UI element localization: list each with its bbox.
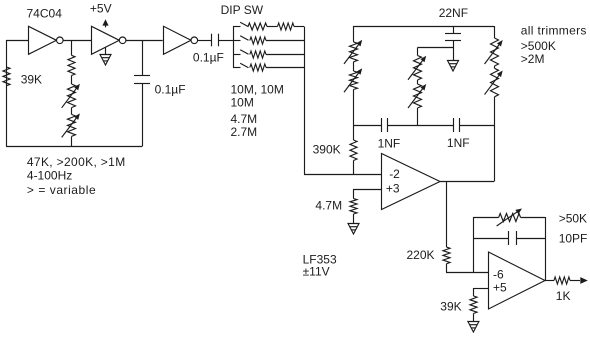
wire [459,125,494,127]
label 10M, 10M [231,83,284,97]
svg-text:10M, 10M: 10M, 10M [231,83,284,97]
resistor R1 39K [3,67,10,86]
wire [266,54,304,56]
wire [71,108,73,115]
wire feedback top left [473,217,498,219]
wire [473,288,475,296]
wire [353,189,355,199]
resistor row4 [250,64,266,71]
resistor timing chain top [68,55,75,75]
wire DIP left bus [233,27,235,68]
wire [353,26,355,42]
wire U2A output [440,181,494,183]
svg-text:all trimmers: all trimmers [521,24,587,38]
wire inverting input [304,174,382,176]
svg-text:0.1µF: 0.1µF [155,83,186,97]
wire U1B output to U1C input [126,40,163,42]
capacitor 1NF left [382,118,388,132]
wire top rail [354,26,495,28]
wire feedback top right [521,217,545,219]
resistor 220K [443,247,450,264]
label 47K, >200K, >1M [27,155,126,169]
svg-text:>50K: >50K [559,212,587,226]
wire noninverting input [354,189,382,191]
wire [388,125,454,127]
svg-text:2.7M: 2.7M [231,125,258,139]
wire [353,214,355,223]
ground under 4.7M [348,224,359,235]
wire [353,62,355,71]
svg-text:4.7M: 4.7M [231,112,258,126]
wire U1C output to C2 [198,40,212,42]
trimmer timing chain 2 [62,113,80,137]
svg-text:+3: +3 [386,182,400,196]
resistor 10M a [248,23,267,30]
svg-text:74C04: 74C04 [27,7,63,21]
label 2.7M [231,125,258,139]
label all trimmers [521,24,587,38]
wire [267,26,278,28]
wire [266,40,304,42]
wire [353,125,355,175]
trimmer middle branch 2 [408,84,426,108]
wire 10PF rail right [516,238,545,240]
wire [353,90,355,126]
inverter U1B 74C04 [92,26,126,54]
ground under U1B [100,47,111,65]
label > = variable [27,183,96,197]
svg-text:1K: 1K [556,289,571,303]
inverter U1C 74C04 [164,26,198,54]
label 39K bias [440,300,461,314]
svg-text:390K: 390K [313,143,341,157]
op-amp U2B LF353 [489,252,546,309]
capacitor C1 0.1uF [134,76,150,84]
label 1NF left [378,137,401,151]
wire [494,26,496,38]
label +5V [90,1,112,15]
trimmer left branch 2 [344,68,362,92]
resistor 39K bias [470,296,477,314]
switch S3 [233,50,249,55]
resistor 10M b [278,23,295,30]
label >2M [521,52,545,66]
trimmer timing chain 1 [62,84,80,108]
capacitor 22NF [445,34,461,41]
wire noninverting input [473,288,488,290]
label 4.7M [231,112,258,126]
wire U1A output to U1B input [63,40,91,42]
ground under 22NF [448,61,459,72]
wire 220K branch [446,182,448,248]
switch S1 [233,22,249,27]
capacitor C2 0.1uF series [212,34,219,47]
wire [570,280,580,282]
output arrow [580,277,588,284]
wire feedback right vertical [545,217,547,281]
wire to inverting input [446,272,489,274]
svg-text:-6: -6 [493,267,504,281]
ground under 39K [468,322,479,333]
svg-text:10PF: 10PF [559,231,588,245]
resistor 4.7M [350,199,357,215]
capacitor 1NF right [454,118,460,132]
label 0.1uF C2 [193,51,224,65]
svg-text:1NF: 1NF [447,136,470,150]
wire [71,136,73,146]
wire [494,97,496,182]
svg-text:>500K: >500K [521,39,556,53]
wire feedback left vertical [473,217,475,272]
wire [417,108,419,125]
wire [71,76,73,85]
wire [294,26,304,28]
trimmer left branch 1 [344,40,362,64]
label 390K [313,143,341,157]
switch S4 [233,63,249,68]
label pin +5 [493,281,507,295]
label >500K [521,39,556,53]
svg-text:47K, >200K, >1M: 47K, >200K, >1M [27,155,126,169]
resistor row2 [250,37,266,44]
resistor 390K [350,140,357,161]
node cap branch [142,40,144,75]
label pin -6 [493,267,504,281]
svg-text:22NF: 22NF [439,6,468,20]
wire 10PF rail left [473,238,508,240]
label 1K [556,289,571,303]
wire [417,48,419,56]
svg-text:39K: 39K [440,300,461,314]
label 74C04 [27,7,63,21]
wire bottom return [6,146,142,148]
label 220K [407,248,435,262]
wire input to inverter U1A [6,40,28,42]
wire [473,314,475,322]
label 1NF right [447,136,470,150]
label >50K [559,212,587,226]
label 10M [231,96,254,110]
wire [453,40,455,61]
wire [417,80,419,84]
label DIP SW [221,3,264,17]
wire [446,264,448,272]
wire DIP right bus [304,27,306,175]
power +5V arrow [102,19,108,27]
inverter U1A 74C04 [29,26,64,54]
wire 1NF rail left [354,125,382,127]
switch S2 [233,36,249,41]
wire tee to middle branch [418,47,454,49]
svg-text:+5V: +5V [90,1,112,15]
label LF353 [303,253,337,267]
svg-text:220K: 220K [407,248,435,262]
svg-text:10M: 10M [231,96,254,110]
wire [142,83,144,147]
svg-text:4-100Hz: 4-100Hz [27,169,72,183]
label pin +3 [386,182,400,196]
trimmer right branch 1 [485,38,503,66]
trimmer right branch 2 [485,68,503,97]
label 39K [21,72,42,86]
resistor row3 [250,51,266,58]
wire [266,67,304,69]
svg-text:>2M: >2M [521,52,545,66]
svg-text:4.7M: 4.7M [315,198,342,212]
label 10PF [559,231,588,245]
svg-text:+5: +5 [493,281,507,295]
svg-text:-2: -2 [389,167,400,181]
wire U2B output [545,280,554,282]
label 22NF [439,6,468,20]
label +-11V [303,265,330,279]
label 4-100Hz [27,169,72,183]
wire left vertical [6,40,8,147]
trimmer middle branch 1 [408,56,426,81]
svg-text:> = variable: > = variable [27,183,96,197]
svg-text:1NF: 1NF [378,137,401,151]
trimmer >50K [497,209,522,227]
svg-text:±11V: ±11V [303,265,330,279]
wire [494,66,496,68]
wire C2 to DIP switch bus [219,40,233,42]
label pin -2 [389,167,400,181]
node U1A output junction [71,40,73,55]
capacitor 10PF [509,231,517,245]
wire 22NF stem [453,26,455,34]
svg-text:0.1µF: 0.1µF [193,51,224,65]
op-amp U2A LF353 [382,154,441,210]
label 0.1uF C1 [155,83,186,97]
resistor 1K [554,277,570,284]
label 4.7M [315,198,342,212]
svg-text:DIP SW: DIP SW [221,3,264,17]
svg-text:39K: 39K [21,72,42,86]
